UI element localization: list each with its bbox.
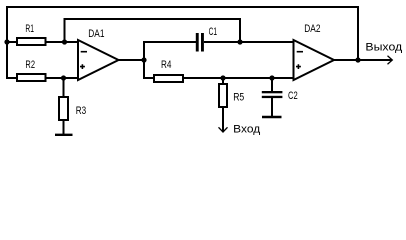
wire: R1 left stub (6, 41, 17, 43)
DA1 inverting pin mark (81, 51, 87, 53)
node: R5 junction (220, 75, 225, 80)
wire: C1 right plate to DA2 inverting input (204, 41, 294, 43)
op-amp DA1 (78, 28, 119, 80)
svg-text:DA1: DA1 (88, 28, 104, 40)
wire: inner rail right vertical (239, 18, 241, 43)
svg-text:R1: R1 (25, 23, 34, 35)
node: DA1 output junction (141, 57, 146, 62)
wire: outer top feedback rail (6, 6, 358, 8)
svg-text:R2: R2 (25, 59, 35, 71)
wire: R3 to ground (63, 120, 65, 135)
svg-text:C1: C1 (209, 26, 218, 38)
wire: inner top rail (64, 18, 241, 20)
resistor R5 (219, 84, 244, 107)
ground (below R3) (55, 134, 73, 136)
node: DA1 inverting input junction (62, 39, 67, 44)
svg-text:C2: C2 (288, 90, 298, 102)
svg-text:Вход: Вход (233, 124, 261, 136)
input arrow (Вход) (219, 124, 261, 136)
wire: R5 to input arrow (222, 106, 224, 131)
svg-text:R5: R5 (233, 92, 244, 104)
DA2 inverting pin mark (297, 51, 303, 53)
svg-text:DA2: DA2 (304, 23, 320, 35)
wire: C2 bottom plate to ground (271, 97, 273, 117)
node: R3 junction (61, 75, 66, 80)
node: C2 junction (269, 75, 274, 80)
wire: R2 output to DA1 non-inverting input (46, 77, 79, 79)
svg-text:R3: R3 (76, 105, 86, 117)
node: output junction (355, 57, 360, 62)
wire: DA1 output (119, 59, 145, 61)
wire: right feedback vertical to output node (357, 6, 359, 60)
wire: inner rail left vertical (64, 19, 66, 41)
resistor R3 (59, 97, 86, 120)
wire: R2 left stub (6, 77, 17, 79)
op-amp DA2 (294, 23, 335, 80)
svg-text:Выход: Выход (365, 41, 402, 53)
resistor R1 (17, 23, 46, 45)
wire: to C1 left plate (143, 41, 196, 43)
wire: left feedback bus vertical (6, 7, 8, 78)
wire: DA1 output node vertical (C1/R4 branch) (143, 41, 145, 79)
DA2 non-inverting pin mark (296, 64, 301, 69)
ground (below C2) (262, 116, 282, 118)
wire: DA2 output to arrow (334, 59, 392, 61)
resistor R4 (154, 59, 183, 82)
node: R1 left junction (4, 39, 9, 44)
resistor R2 (17, 59, 46, 81)
capacitor C1 (196, 26, 217, 52)
wire: R1 output to DA1 inverting input (46, 41, 79, 43)
node: DA2 inverting input junction (237, 39, 242, 44)
svg-text:R4: R4 (161, 59, 171, 71)
wire: to R4 left (143, 77, 154, 79)
DA1 non-inverting pin mark (80, 64, 85, 69)
capacitor C2 (262, 90, 298, 102)
output arrow (Выход) (365, 41, 402, 64)
wire: R4 output to DA2 non-inverting input (183, 77, 294, 79)
wire: node to R5 (222, 77, 224, 85)
wire: node to C2 top plate (271, 77, 273, 92)
wire: node to R3 (63, 77, 65, 97)
